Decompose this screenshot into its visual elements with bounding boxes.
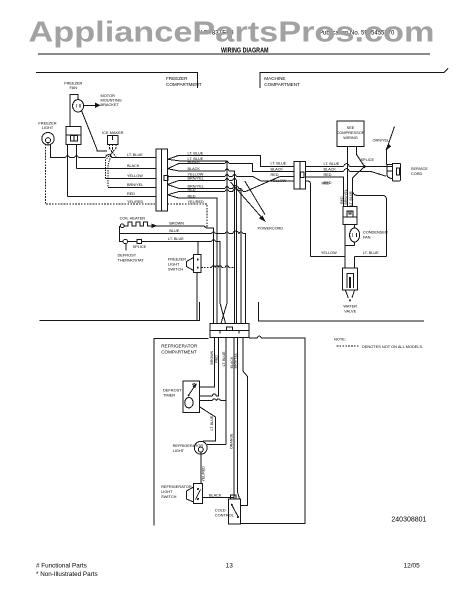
svg-text:RED: RED — [188, 194, 196, 198]
svg-text:BRN/YEL: BRN/YEL — [188, 177, 204, 181]
svg-text:POWERCORD: POWERCORD — [258, 227, 284, 231]
condenser fan leads — [345, 225, 355, 246]
long wire J3 to cold control bottom — [241, 338, 305, 524]
yel/red wire light to switch — [200, 454, 202, 484]
svg-text:LT. BLUE: LT. BLUE — [349, 190, 353, 206]
svg-text:BLUE: BLUE — [169, 229, 179, 233]
defrost timer motor — [185, 398, 193, 408]
wire row4 BRN/YEL — [108, 187, 156, 189]
cold control box — [229, 499, 241, 524]
wire row6 YEL/RED dashed — [46, 144, 157, 204]
svg-text:SPLICE: SPLICE — [361, 158, 375, 162]
coil heater element — [124, 222, 152, 226]
compressor box lead to splice — [357, 147, 365, 167]
svg-text:BRN/YEL: BRN/YEL — [234, 353, 238, 368]
wire YEL/RED dashed right of J1 — [168, 204, 208, 228]
compressor box lead BRN/YEL — [347, 147, 349, 207]
wire BLACK bottom (to refrigerator) — [179, 171, 235, 324]
svg-text:LT. BLUE: LT. BLUE — [188, 152, 204, 156]
switch wire up to lt.blue row — [197, 242, 199, 255]
defrost thermostat circle — [123, 239, 127, 243]
light right wire to lt.blue — [207, 401, 226, 445]
wire to cold control right side — [241, 338, 248, 506]
svg-text:LT. BLUE: LT. BLUE — [324, 162, 340, 166]
svg-text:# Functional Parts: # Functional Parts — [36, 562, 87, 569]
freezer light switch S1 — [194, 255, 202, 273]
svg-text:YELLOW: YELLOW — [271, 179, 287, 183]
divider freezer/refrigerator left — [40, 302, 200, 321]
pennant wire labels right of J1 — [188, 152, 205, 205]
wire BRN/YEL top — [179, 180, 237, 323]
svg-text:ORANGE: ORANGE — [230, 433, 234, 449]
svg-text:LT. BLUE: LT. BLUE — [168, 237, 184, 241]
svg-text:FAN: FAN — [70, 85, 78, 90]
machine compartment bracket — [260, 68, 448, 88]
svg-text:BLACK: BLACK — [188, 167, 201, 171]
svg-text:THERMOSTAT: THERMOSTAT — [118, 258, 145, 263]
refrigerator light switch S2 — [194, 484, 203, 504]
labels left of connector J2 — [271, 161, 287, 183]
wire motor to ice maker area — [82, 111, 108, 151]
freezer fan motor M1 — [73, 100, 84, 112]
svg-text:DENOTES NOT ON ALL MODELS.: DENOTES NOT ON ALL MODELS. — [362, 344, 423, 349]
pennant splice LT.BLUE pair — [168, 155, 180, 161]
svg-text:RED: RED — [188, 188, 196, 192]
svg-text:MACHINE: MACHINE — [264, 76, 285, 81]
svg-text:BLACK: BLACK — [127, 164, 140, 168]
wire BROWN — [156, 226, 214, 231]
svg-text:BRACKET: BRACKET — [101, 102, 120, 107]
wire RED below J3 — [200, 338, 219, 396]
refrigerator compartment bracket — [154, 339, 209, 526]
freezer fan motor loop wire — [70, 95, 78, 127]
svg-text:12/05: 12/05 — [404, 562, 421, 569]
labels right of connector J2 — [324, 162, 340, 185]
refrigerator light L2 — [194, 441, 207, 454]
compressor housing top edge wire — [353, 190, 387, 257]
connector block J1 freezer/machine — [156, 149, 168, 211]
row labels left of connector J1 — [127, 153, 144, 204]
wire BRN/YEL bottom — [179, 188, 241, 323]
svg-text:BLACK: BLACK — [271, 168, 284, 172]
svg-text:FAN: FAN — [363, 235, 371, 240]
pennant splice RED pair — [168, 192, 180, 199]
svg-text:CORD: CORD — [411, 171, 423, 176]
row1 hop over ice maker leads — [106, 155, 112, 158]
svg-text:LIGHT: LIGHT — [42, 125, 54, 130]
coil heater arrow terminal — [152, 224, 156, 227]
divider right — [258, 302, 424, 321]
wire BLUE — [120, 234, 246, 324]
svg-text:NOTE:: NOTE: — [334, 337, 346, 342]
wire LT.BLUE top (to machine) — [179, 155, 294, 166]
svg-text:COMPARTMENT: COMPARTMENT — [166, 82, 202, 87]
svg-text:BRN/YEL: BRN/YEL — [344, 189, 348, 204]
svg-text:LT. BLUE: LT. BLUE — [271, 161, 287, 165]
freezer light L1 — [42, 133, 54, 145]
svg-text:AppliancePartsPros.com: AppliancePartsPros.com — [29, 17, 435, 49]
wire LT.BLUE below J3 to timer — [200, 338, 226, 401]
rotated wire labels at compressor — [340, 189, 353, 206]
compressor housing bottom edge wires — [310, 256, 386, 258]
water valve wires below — [345, 290, 355, 298]
bundle verticals BROWN RED — [214, 198, 218, 323]
svg-text:LT. BLUE: LT. BLUE — [210, 415, 214, 431]
hop BLACK top over v227 — [225, 162, 229, 164]
powercord arrow — [231, 182, 264, 219]
defrost timer switch — [189, 385, 196, 395]
wire BRN/YEL below J3 — [238, 338, 240, 499]
wire row2 BLACK — [77, 168, 157, 170]
wire BLACK top (to machine) — [179, 163, 294, 171]
svg-text:YELLOW: YELLOW — [321, 251, 337, 255]
svg-text:BROWN: BROWN — [169, 222, 184, 226]
splice to LT.BLUE compressor lead — [353, 167, 365, 207]
service cord plug — [392, 163, 400, 181]
svg-text:240308801: 240308801 — [391, 516, 426, 523]
wire LT.BLUE to service cord — [306, 166, 393, 168]
svg-text:YEL/RED: YEL/RED — [202, 466, 206, 482]
defrost timer box — [183, 381, 200, 412]
switch dashed wire right — [201, 267, 234, 269]
pennant splice BLACK pair — [168, 163, 180, 171]
water valve connector — [342, 268, 357, 290]
note dashed legend — [337, 345, 359, 347]
svg-text:REFRIGERATOR: REFRIGERATOR — [161, 344, 198, 349]
wire BLACK to service cord — [306, 172, 386, 177]
see compressor wiring box — [337, 121, 364, 147]
pennant splice BRN/YEL pair — [168, 180, 180, 188]
svg-text:LT. BLUE: LT. BLUE — [222, 351, 226, 367]
connector block J2 machine — [294, 161, 306, 188]
coil heater terminal — [120, 224, 124, 228]
svg-text:VALVE: VALVE — [344, 308, 356, 313]
svg-text:LT. BLUE: LT. BLUE — [363, 251, 379, 255]
ice maker connector — [108, 135, 119, 144]
svg-text:ORN/YEL: ORN/YEL — [373, 138, 390, 142]
wire LT.BLUE bottom (to refrigerator) — [179, 161, 227, 324]
blue row hops — [212, 232, 216, 234]
svg-text:BLACK: BLACK — [324, 168, 337, 172]
svg-text:YELLOW: YELLOW — [127, 174, 143, 178]
rotated wire labels below J3 — [210, 350, 238, 368]
motor mounting bracket arrow — [84, 104, 96, 106]
wire YELLOW down left side of compressor box — [306, 181, 311, 257]
defrost timer bottom lead diagonal — [200, 407, 216, 443]
wire RED top (to machine, rises to block2) — [179, 177, 294, 192]
switch wire down to divider — [196, 273, 198, 321]
svg-text:COMPARTMENT: COMPARTMENT — [264, 82, 300, 87]
svg-text:* Non-Illustrated Parts: * Non-Illustrated Parts — [36, 571, 98, 578]
wire row5 RED — [68, 196, 157, 198]
svg-text:YEL/RED: YEL/RED — [188, 200, 205, 204]
svg-text:BLACK: BLACK — [209, 494, 222, 498]
svg-text:SPLICE: SPLICE — [133, 245, 147, 249]
svg-text:RED: RED — [271, 173, 279, 177]
splice junction dot — [363, 165, 366, 168]
svg-text:COMPARTMENT: COMPARTMENT — [161, 350, 197, 355]
header rule line — [38, 53, 430, 55]
splice component — [137, 239, 142, 243]
wire YELLOW single — [168, 176, 294, 181]
svg-text:LIGHT: LIGHT — [173, 448, 185, 453]
row1 hop over fan lead A — [66, 156, 70, 158]
ice maker pins (dashed leads) — [109, 145, 116, 149]
svg-text:SWITCH: SWITCH — [168, 266, 184, 271]
svg-text:WIRING: WIRING — [343, 135, 357, 140]
svg-text:LT. BLUE: LT. BLUE — [127, 153, 143, 157]
wire BLACK/ORANGE below J3 — [233, 338, 235, 499]
svg-text:WIRING DIAGRAM: WIRING DIAGRAM — [221, 45, 269, 54]
svg-text:RED: RED — [322, 181, 330, 185]
svg-text:TIMER: TIMER — [163, 393, 175, 398]
fan lead A wire — [67, 145, 69, 197]
condenser fan motor M2 — [350, 228, 360, 242]
svg-text:RED: RED — [127, 192, 135, 196]
svg-text:BRN/YEL: BRN/YEL — [127, 183, 143, 187]
svg-text:ICE MAKER: ICE MAKER — [102, 130, 124, 135]
wire BROWN below J3 — [200, 338, 215, 387]
svg-text:13: 13 — [226, 562, 234, 569]
wire RED down to compressor — [306, 177, 344, 207]
fan lead B wire — [76, 145, 78, 169]
ORN/YEL ground arrow — [387, 127, 395, 149]
ice maker lead crossings — [109, 148, 116, 157]
water valve leads — [345, 246, 355, 269]
connector block J3 raceway — [210, 323, 249, 337]
svg-text:FREEZER: FREEZER — [166, 76, 188, 81]
wire row1 LT.BLUE (freezer light to connector) — [51, 145, 157, 158]
row1 hop over fan lead B — [75, 156, 79, 158]
wire RED bottom (to refrigerator) — [179, 198, 217, 323]
compressor terminal box — [343, 207, 357, 225]
svg-text:SWITCH: SWITCH — [161, 494, 177, 499]
freezer fan body connector — [66, 126, 81, 144]
black wire switch to cold control — [203, 497, 234, 499]
svg-text:RED: RED — [214, 355, 218, 363]
svg-text:COIL HEATER: COIL HEATER — [120, 216, 146, 221]
svg-text:CONTROL: CONTROL — [215, 512, 235, 517]
thermostat leader line — [125, 244, 127, 251]
svg-text:YEL/RED: YEL/RED — [127, 200, 144, 204]
wire row3 YELLOW — [106, 178, 157, 180]
wire LT.BLUE coil row — [120, 226, 226, 324]
freezer compartment bracket — [36, 73, 197, 88]
svg-text:BLACK: BLACK — [188, 160, 201, 164]
wire power cord lead — [245, 181, 265, 215]
